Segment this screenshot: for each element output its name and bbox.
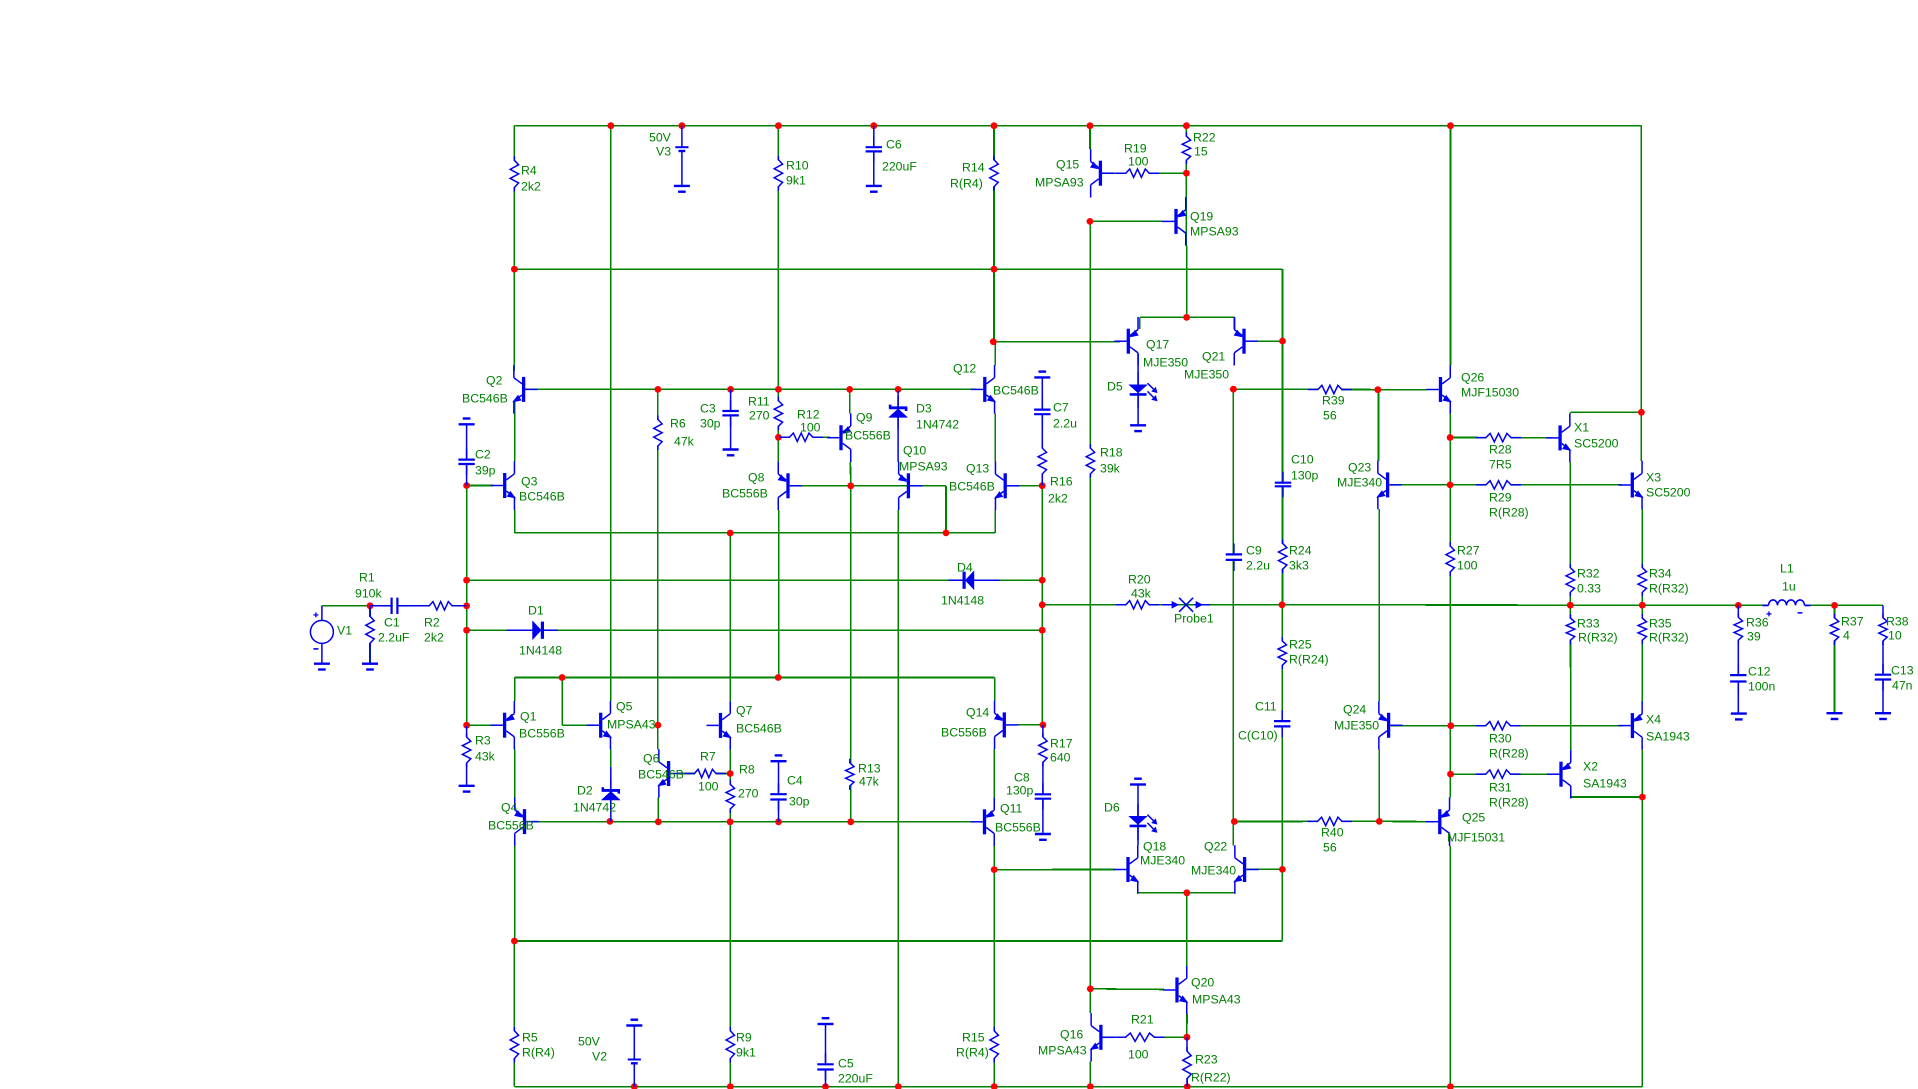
svg-text:BC546B: BC546B: [519, 490, 565, 504]
svg-text:R3: R3: [475, 734, 491, 748]
svg-text:R5: R5: [522, 1031, 538, 1045]
svg-text:R19: R19: [1124, 142, 1147, 156]
svg-text:C7: C7: [1053, 401, 1069, 415]
svg-text:30p: 30p: [700, 417, 721, 431]
svg-text:R(R28): R(R28): [1489, 506, 1529, 520]
svg-text:Probe1: Probe1: [1174, 612, 1214, 626]
svg-text:R27: R27: [1457, 544, 1480, 558]
svg-text:47n: 47n: [1892, 679, 1913, 693]
svg-text:R40: R40: [1321, 826, 1344, 840]
svg-text:D3: D3: [916, 402, 932, 416]
svg-text:1N4148: 1N4148: [941, 594, 984, 608]
svg-text:R4: R4: [521, 164, 537, 178]
svg-text:2.2u: 2.2u: [1246, 559, 1270, 573]
svg-text:Q18: Q18: [1143, 840, 1166, 854]
svg-text:Q21: Q21: [1202, 350, 1225, 364]
svg-text:R(R24): R(R24): [1289, 653, 1329, 667]
svg-text:R1: R1: [359, 571, 375, 585]
svg-text:3k3: 3k3: [1289, 559, 1309, 573]
svg-text:R20: R20: [1128, 573, 1151, 587]
svg-text:SC5200: SC5200: [1574, 437, 1619, 451]
svg-text:R31: R31: [1489, 781, 1512, 795]
svg-text:100: 100: [1457, 559, 1478, 573]
svg-text:SA1943: SA1943: [1583, 777, 1627, 791]
svg-text:R16: R16: [1050, 475, 1073, 489]
svg-text:C12: C12: [1748, 665, 1771, 679]
svg-text:Q3: Q3: [521, 475, 538, 489]
svg-text:56: 56: [1323, 841, 1337, 855]
svg-text:SC5200: SC5200: [1646, 486, 1691, 500]
svg-text:Q25: Q25: [1462, 811, 1485, 825]
svg-text:MJE350: MJE350: [1184, 368, 1229, 382]
svg-text:R9: R9: [736, 1031, 752, 1045]
svg-text:V1: V1: [337, 624, 352, 638]
svg-text:R10: R10: [786, 159, 809, 173]
svg-text:R12: R12: [797, 408, 820, 422]
svg-text:R8: R8: [739, 763, 755, 777]
svg-text:2k2: 2k2: [1048, 492, 1068, 506]
svg-text:MJE340: MJE340: [1337, 476, 1382, 490]
svg-text:R25: R25: [1289, 638, 1312, 652]
svg-text:R14: R14: [962, 161, 985, 175]
svg-text:270: 270: [738, 787, 759, 801]
svg-text:C(C10): C(C10): [1238, 729, 1278, 743]
svg-text:910k: 910k: [355, 587, 383, 601]
svg-text:56: 56: [1323, 409, 1337, 423]
svg-text:Q15: Q15: [1056, 158, 1079, 172]
svg-text:R29: R29: [1489, 491, 1512, 505]
svg-text:Q26: Q26: [1461, 371, 1484, 385]
svg-text:C2: C2: [475, 448, 491, 462]
svg-text:9k1: 9k1: [786, 174, 806, 188]
svg-text:MJE350: MJE350: [1334, 719, 1379, 733]
svg-text:130p: 130p: [1291, 469, 1319, 483]
svg-text:R39: R39: [1322, 394, 1345, 408]
svg-text:39k: 39k: [1100, 462, 1121, 476]
svg-text:220uF: 220uF: [882, 160, 917, 174]
svg-text:BC556B: BC556B: [995, 821, 1041, 835]
svg-text:Q8: Q8: [748, 471, 765, 485]
svg-text:Q22: Q22: [1204, 840, 1227, 854]
svg-text:MPSA93: MPSA93: [1035, 176, 1084, 190]
svg-text:C4: C4: [787, 774, 803, 788]
svg-text:X2: X2: [1583, 760, 1598, 774]
svg-text:MPSA93: MPSA93: [899, 460, 948, 474]
svg-text:R(R28): R(R28): [1489, 747, 1529, 761]
svg-text:R36: R36: [1746, 616, 1769, 630]
svg-text:30p: 30p: [789, 795, 810, 809]
svg-text:Q19: Q19: [1190, 210, 1213, 224]
svg-text:10: 10: [1888, 629, 1902, 643]
svg-text:D4: D4: [957, 561, 973, 575]
svg-text:1N4742: 1N4742: [573, 801, 616, 815]
svg-text:Q24: Q24: [1343, 703, 1366, 717]
svg-text:R15: R15: [962, 1031, 985, 1045]
svg-text:R30: R30: [1489, 732, 1512, 746]
svg-text:R37: R37: [1841, 615, 1864, 629]
svg-text:R28: R28: [1489, 443, 1512, 457]
svg-text:C13: C13: [1891, 664, 1914, 678]
svg-text:BC556B: BC556B: [722, 487, 768, 501]
svg-text:640: 640: [1050, 751, 1071, 765]
svg-text:R(R4): R(R4): [950, 177, 983, 191]
svg-text:R6: R6: [670, 417, 686, 431]
svg-text:Q12: Q12: [953, 362, 976, 376]
svg-text:220uF: 220uF: [838, 1072, 873, 1086]
svg-text:D2: D2: [577, 784, 593, 798]
svg-text:50V: 50V: [649, 131, 672, 145]
svg-text:BC556B: BC556B: [519, 727, 565, 741]
svg-text:BC546B: BC546B: [949, 480, 995, 494]
svg-text:C8: C8: [1014, 771, 1030, 785]
svg-text:R(R4): R(R4): [522, 1046, 555, 1060]
svg-text:Q13: Q13: [966, 462, 989, 476]
svg-text:R2: R2: [424, 616, 440, 630]
svg-text:R7: R7: [700, 750, 716, 764]
svg-text:7R5: 7R5: [1489, 458, 1512, 472]
svg-text:V3: V3: [656, 145, 671, 159]
svg-text:MJE350: MJE350: [1143, 356, 1188, 370]
svg-text:1u: 1u: [1782, 580, 1796, 594]
svg-text:2k2: 2k2: [521, 180, 541, 194]
svg-text:100: 100: [698, 780, 719, 794]
svg-text:MJE340: MJE340: [1140, 854, 1185, 868]
svg-text:R(R4): R(R4): [956, 1046, 989, 1060]
svg-text:MJE340: MJE340: [1191, 864, 1236, 878]
svg-text:BC546B: BC546B: [993, 384, 1039, 398]
svg-text:C6: C6: [886, 138, 902, 152]
svg-text:100: 100: [1128, 155, 1149, 169]
svg-text:0.33: 0.33: [1577, 582, 1601, 596]
svg-text:Q11: Q11: [1000, 802, 1022, 816]
svg-text:50V: 50V: [578, 1035, 601, 1049]
svg-text:R(R28): R(R28): [1489, 796, 1529, 810]
svg-text:Q14: Q14: [966, 706, 989, 720]
svg-text:MJF15031: MJF15031: [1447, 831, 1505, 845]
svg-text:100n: 100n: [1748, 680, 1776, 694]
svg-text:43k: 43k: [475, 750, 496, 764]
svg-text:Q9: Q9: [856, 411, 873, 425]
svg-text:BC546B: BC546B: [736, 722, 782, 736]
svg-text:100: 100: [1128, 1048, 1149, 1062]
svg-text:Q4: Q4: [501, 801, 518, 815]
svg-text:MPSA93: MPSA93: [1190, 225, 1239, 239]
svg-text:9k1: 9k1: [736, 1046, 756, 1060]
svg-text:BC556B: BC556B: [488, 819, 534, 833]
svg-text:R24: R24: [1289, 544, 1312, 558]
svg-text:BC546B: BC546B: [638, 768, 684, 782]
svg-text:2.2u: 2.2u: [1053, 417, 1077, 431]
svg-text:MPSA43: MPSA43: [1192, 993, 1241, 1007]
svg-text:R(R32): R(R32): [1649, 582, 1689, 596]
svg-text:X1: X1: [1574, 421, 1589, 435]
svg-text:MPSA43: MPSA43: [1038, 1044, 1087, 1058]
svg-text:1N4742: 1N4742: [916, 418, 959, 432]
svg-text:1N4148: 1N4148: [519, 644, 562, 658]
svg-text:Q7: Q7: [736, 704, 753, 718]
svg-text:C1: C1: [384, 616, 400, 630]
svg-text:R21: R21: [1131, 1013, 1154, 1027]
svg-text:2.2uF: 2.2uF: [378, 631, 410, 645]
svg-text:R23: R23: [1195, 1053, 1218, 1067]
svg-text:L1: L1: [1780, 562, 1794, 576]
svg-text:C5: C5: [838, 1057, 854, 1071]
svg-text:Q6: Q6: [643, 752, 660, 766]
svg-text:V2: V2: [592, 1050, 607, 1064]
svg-text:47k: 47k: [674, 435, 695, 449]
svg-text:R17: R17: [1050, 737, 1073, 751]
svg-text:C11: C11: [1255, 700, 1277, 714]
svg-text:270: 270: [749, 409, 770, 423]
svg-text:R(R32): R(R32): [1649, 631, 1689, 645]
svg-text:BC546B: BC546B: [462, 392, 508, 406]
svg-text:BC556B: BC556B: [845, 429, 891, 443]
svg-text:R32: R32: [1577, 567, 1600, 581]
svg-text:Q1: Q1: [520, 710, 537, 724]
svg-text:X4: X4: [1646, 713, 1661, 727]
svg-text:D1: D1: [528, 604, 544, 618]
svg-text:47k: 47k: [859, 775, 880, 789]
svg-text:BC556B: BC556B: [941, 726, 987, 740]
svg-text:D5: D5: [1107, 380, 1123, 394]
svg-text:C3: C3: [700, 402, 716, 416]
svg-text:R22: R22: [1193, 131, 1216, 145]
svg-text:R35: R35: [1649, 617, 1672, 631]
svg-text:Q17: Q17: [1146, 338, 1169, 352]
svg-text:C10: C10: [1291, 453, 1314, 467]
svg-text:Q23: Q23: [1348, 461, 1371, 475]
svg-text:43k: 43k: [1131, 587, 1152, 601]
svg-text:Q2: Q2: [486, 374, 503, 388]
svg-text:SA1943: SA1943: [1646, 730, 1690, 744]
svg-text:R33: R33: [1577, 617, 1600, 631]
svg-text:Q20: Q20: [1191, 976, 1214, 990]
svg-text:R18: R18: [1100, 446, 1123, 460]
svg-text:4: 4: [1843, 629, 1850, 643]
svg-text:39p: 39p: [475, 464, 496, 478]
svg-text:D6: D6: [1104, 801, 1120, 815]
svg-text:100: 100: [800, 421, 821, 435]
svg-text:15: 15: [1194, 145, 1208, 159]
svg-text:C9: C9: [1246, 544, 1262, 558]
svg-text:R(R32): R(R32): [1578, 631, 1618, 645]
svg-text:X3: X3: [1646, 471, 1661, 485]
svg-text:2k2: 2k2: [424, 631, 444, 645]
svg-text:R34: R34: [1649, 567, 1672, 581]
svg-text:R11: R11: [748, 395, 770, 409]
svg-text:130p: 130p: [1006, 784, 1034, 798]
svg-text:MPSA43: MPSA43: [607, 718, 656, 732]
svg-text:R13: R13: [858, 762, 881, 776]
svg-text:R(R22): R(R22): [1191, 1071, 1231, 1085]
svg-text:MJF15030: MJF15030: [1461, 386, 1519, 400]
svg-text:39: 39: [1747, 630, 1761, 644]
svg-text:Q10: Q10: [903, 444, 926, 458]
svg-text:Q16: Q16: [1060, 1028, 1083, 1042]
svg-text:Q5: Q5: [616, 700, 633, 714]
svg-text:R38: R38: [1886, 615, 1909, 629]
